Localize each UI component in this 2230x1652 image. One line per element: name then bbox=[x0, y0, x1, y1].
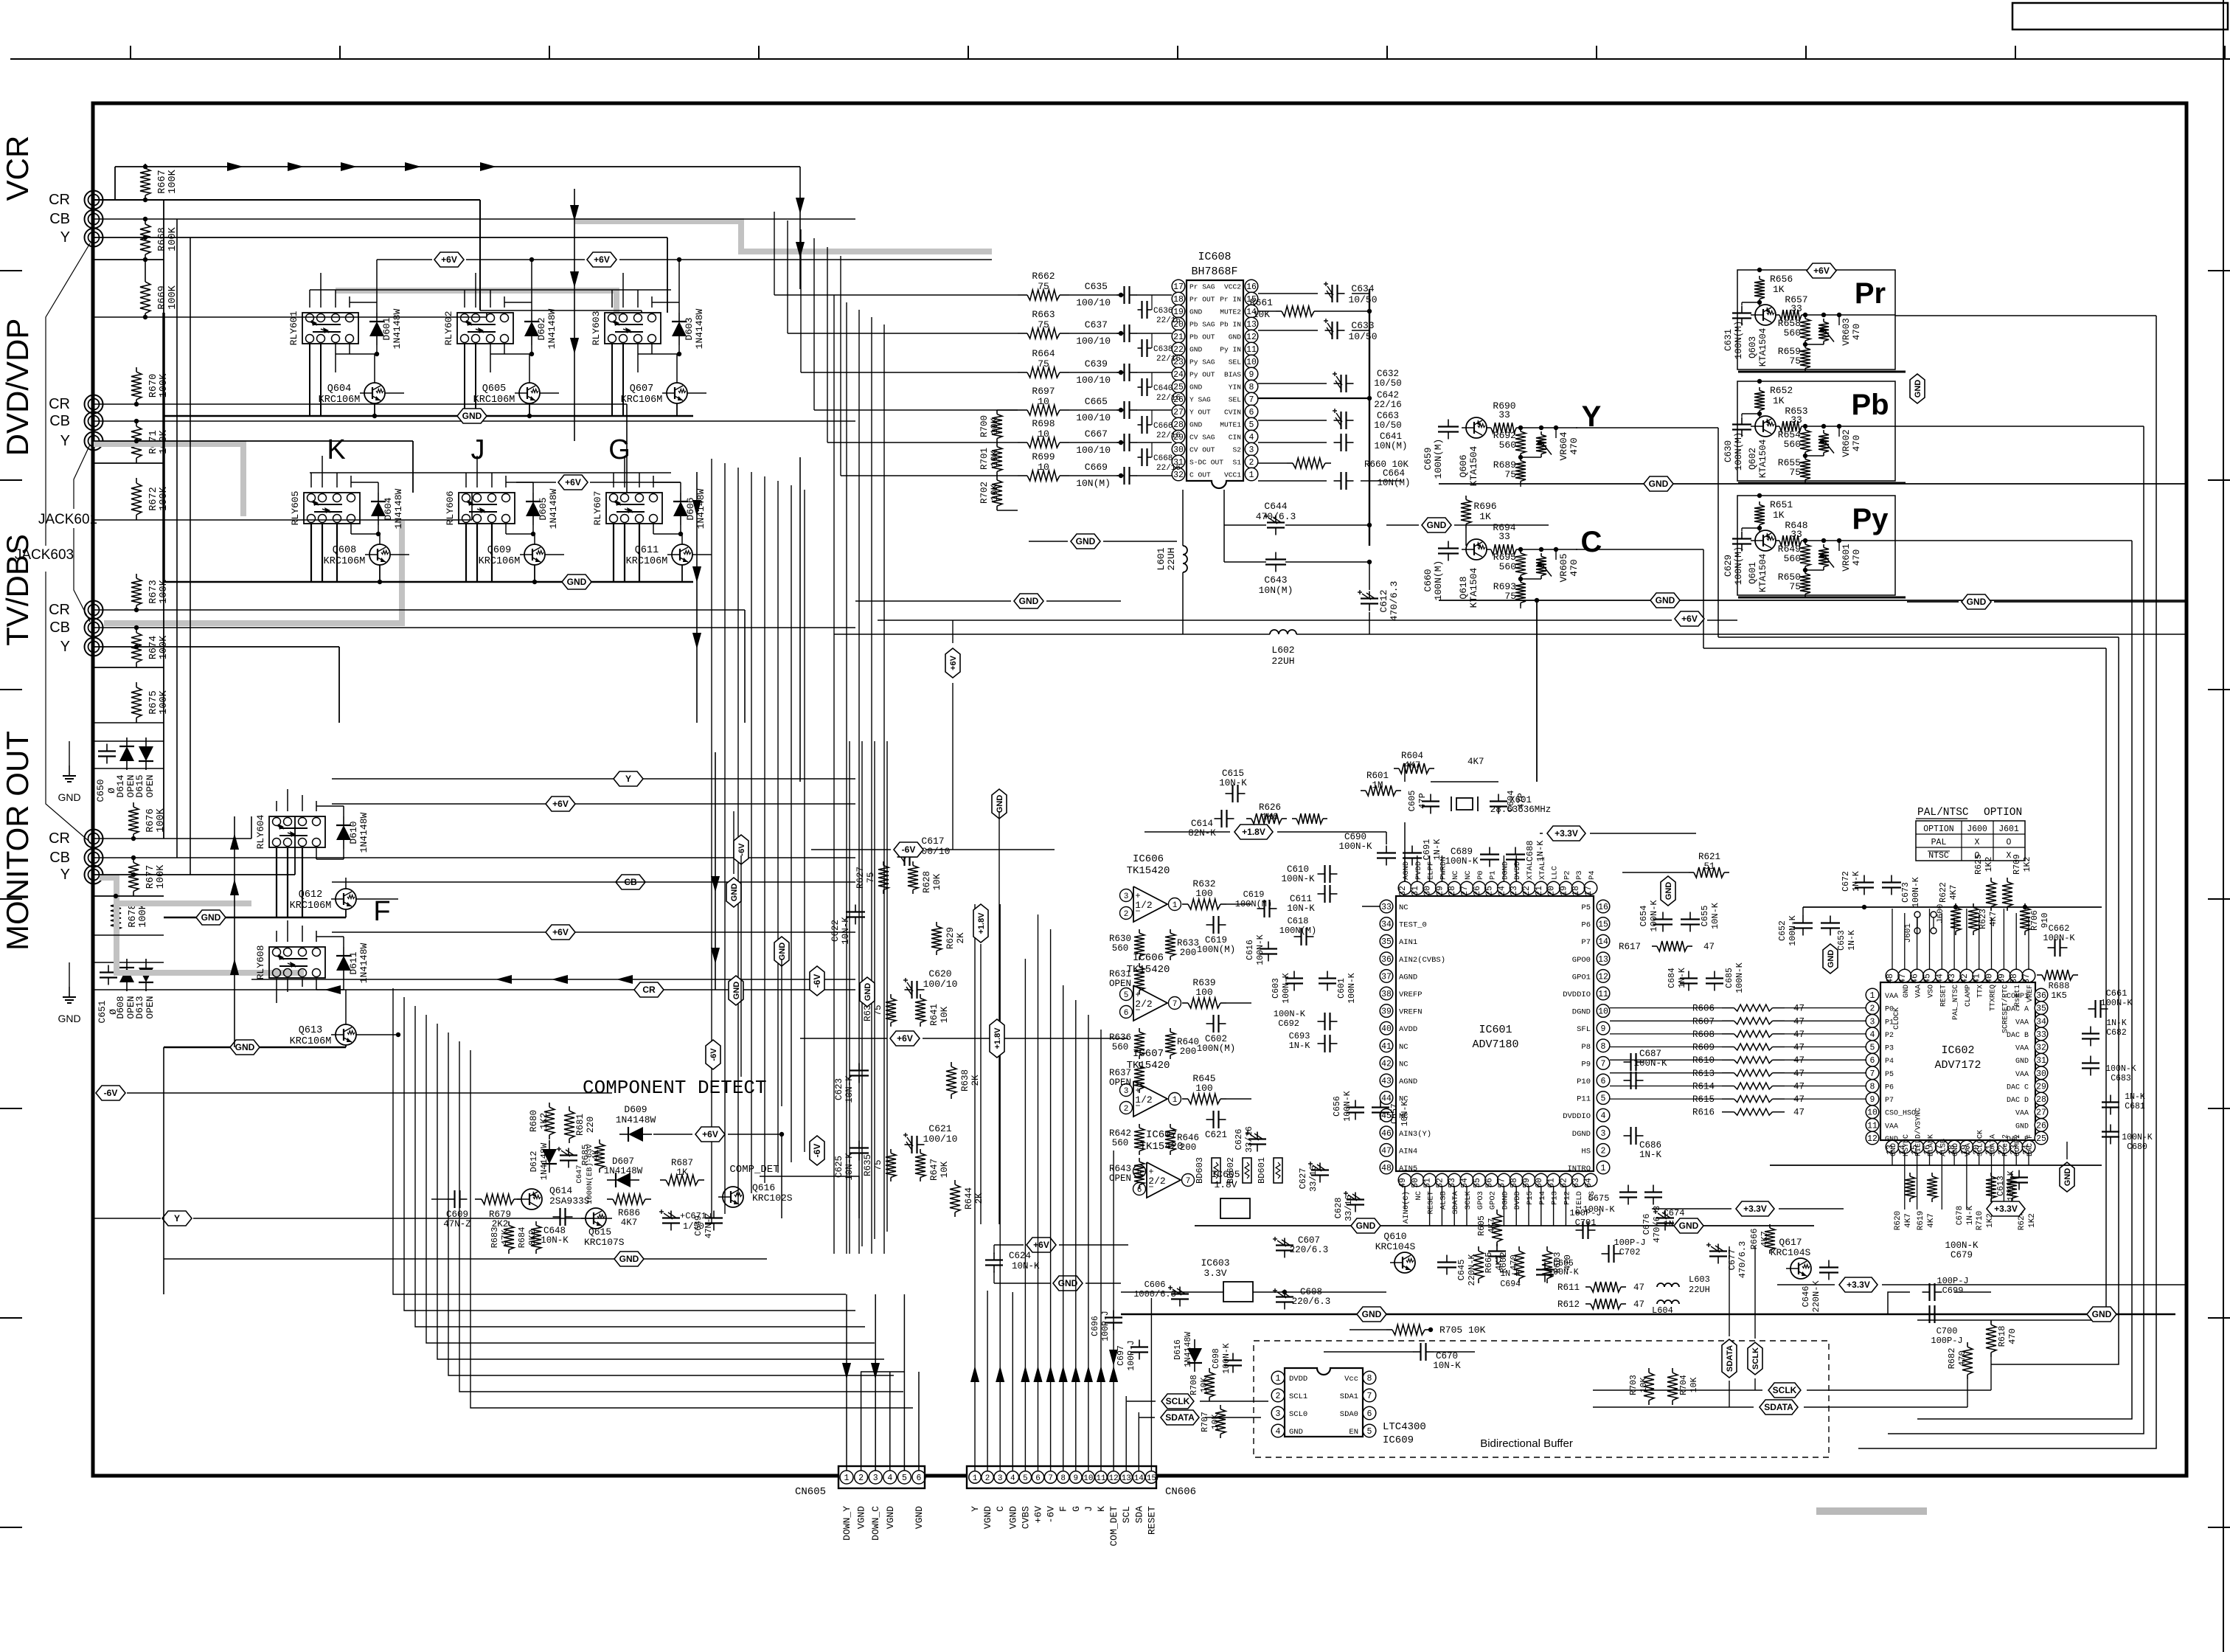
svg-text:35: 35 bbox=[1381, 937, 1392, 947]
svg-text:EN: EN bbox=[1349, 1428, 1358, 1437]
svg-text:SDATA: SDATA bbox=[1165, 1412, 1195, 1423]
svg-text:R680: R680 bbox=[529, 1110, 539, 1132]
svg-text:AIN5: AIN5 bbox=[1399, 1165, 1417, 1173]
svg-text:ALSB: ALSB bbox=[1939, 1139, 1948, 1156]
svg-text:+6V: +6V bbox=[594, 254, 610, 265]
svg-text:25: 25 bbox=[2036, 1134, 2046, 1144]
wire gray highlight B bbox=[336, 291, 616, 316]
svg-text:5: 5 bbox=[1367, 1427, 1372, 1437]
svg-text:VR604: VR604 bbox=[1558, 431, 1569, 460]
svg-text:C617: C617 bbox=[921, 836, 944, 847]
diode D613 bbox=[139, 968, 153, 982]
svg-text:Q615: Q615 bbox=[588, 1226, 611, 1238]
svg-text:RLY606: RLY606 bbox=[445, 491, 456, 526]
svg-text:64: 64 bbox=[1584, 1178, 1594, 1188]
svg-text:42: 42 bbox=[1960, 974, 1970, 984]
power flag GND y bbox=[1644, 476, 1673, 491]
wire R700 bus bbox=[997, 409, 1018, 411]
svg-text:F: F bbox=[373, 896, 390, 927]
svg-text:29: 29 bbox=[1435, 886, 1445, 896]
svg-text:100N(M): 100N(M) bbox=[1279, 926, 1316, 936]
capacitor C608 bbox=[1284, 1290, 1285, 1297]
svg-text:RLY607: RLY607 bbox=[592, 491, 603, 526]
svg-text:8: 8 bbox=[1060, 1474, 1066, 1483]
ic IC602 left pins bbox=[1866, 988, 1879, 1002]
svg-text:12: 12 bbox=[1867, 1134, 1878, 1144]
svg-text:R651: R651 bbox=[1770, 499, 1793, 510]
capacitor C613 bbox=[2018, 1170, 2020, 1178]
svg-text:10K: 10K bbox=[990, 484, 1000, 501]
capacitor C688 bbox=[1515, 847, 1516, 855]
capacitor C682 bbox=[2090, 1027, 2091, 1034]
svg-text:+: + bbox=[1135, 990, 1140, 1000]
svg-text:TK15420: TK15420 bbox=[1127, 1060, 1170, 1072]
svg-text:1K6: 1K6 bbox=[1262, 812, 1279, 822]
svg-text:OPEN: OPEN bbox=[1109, 979, 1131, 989]
wire left bus thick bbox=[162, 313, 165, 583]
capacitor C663 bbox=[1334, 420, 1341, 421]
svg-text:CLAMP: CLAMP bbox=[1965, 985, 1973, 1007]
diode D602 bbox=[524, 322, 539, 336]
svg-text:GND: GND bbox=[2063, 1168, 2072, 1187]
svg-text:30: 30 bbox=[2036, 1069, 2046, 1079]
svg-text:-6V: -6V bbox=[1046, 1506, 1057, 1524]
resistor R629 bbox=[936, 922, 937, 926]
wire IC602 top stubs bbox=[1892, 909, 1893, 969]
svg-text:ELPF: ELPF bbox=[1427, 861, 1436, 880]
svg-text:1: 1 bbox=[973, 1474, 978, 1483]
svg-text:Q608: Q608 bbox=[333, 545, 356, 556]
svg-text:C683: C683 bbox=[2111, 1074, 2131, 1083]
svg-text:SCL: SCL bbox=[1121, 1506, 1132, 1523]
svg-text:CB: CB bbox=[49, 413, 70, 429]
jack TV/DBS CB bbox=[85, 619, 103, 637]
svg-text:DGND: DGND bbox=[1501, 861, 1510, 880]
svg-text:D606: D606 bbox=[685, 497, 696, 520]
svg-text:D614: D614 bbox=[115, 774, 126, 797]
resistor R685 bbox=[599, 1139, 600, 1144]
svg-text:4: 4 bbox=[1010, 1474, 1015, 1483]
power flag +1.8V ic601 bbox=[1234, 825, 1273, 839]
wire MON CB bbox=[94, 857, 855, 858]
capacitor C638 bbox=[1138, 347, 1142, 349]
svg-text:1N4148W: 1N4148W bbox=[604, 1166, 643, 1176]
svg-text:R616: R616 bbox=[1692, 1108, 1715, 1118]
capacitor C603 bbox=[1293, 971, 1295, 979]
resistor R618 bbox=[1990, 1320, 1992, 1325]
svg-text:6: 6 bbox=[1124, 1009, 1129, 1018]
svg-text:C696: C696 bbox=[1091, 1316, 1100, 1336]
svg-text:IC601: IC601 bbox=[1479, 1024, 1512, 1036]
svg-text:10K: 10K bbox=[1253, 309, 1271, 320]
svg-text:100N-K: 100N-K bbox=[1222, 1343, 1232, 1374]
power flag SDATA col bbox=[1722, 1339, 1737, 1378]
svg-text:J: J bbox=[471, 434, 485, 465]
power flag SCLK col bbox=[1748, 1342, 1762, 1375]
svg-text:RESET: RESET bbox=[1939, 985, 1948, 1007]
capacitor C611 bbox=[1318, 893, 1325, 895]
svg-text:GND: GND bbox=[58, 791, 80, 803]
capacitor C677 bbox=[1717, 1244, 1719, 1252]
capacitor C633 bbox=[1325, 330, 1333, 331]
svg-text:54: 54 bbox=[1460, 1178, 1470, 1188]
svg-text:31: 31 bbox=[2036, 1056, 2046, 1066]
wire row2 gnd rail bbox=[164, 581, 693, 583]
resistor R706 bbox=[2024, 903, 2026, 907]
wire MON Y bbox=[94, 874, 295, 875]
svg-text:CR: CR bbox=[49, 192, 70, 208]
svg-text:31: 31 bbox=[1411, 886, 1420, 896]
svg-text:G: G bbox=[1071, 1506, 1082, 1512]
wire +6V long rail bbox=[799, 457, 801, 782]
capacitor C624 bbox=[993, 1253, 995, 1260]
wire gray highlight E bbox=[94, 444, 243, 516]
svg-text:10N-K: 10N-K bbox=[1710, 902, 1720, 929]
svg-text:R681: R681 bbox=[575, 1114, 586, 1136]
capacitor C687 bbox=[1624, 1061, 1631, 1063]
svg-text:C691: C691 bbox=[1422, 839, 1432, 861]
svg-text:1N4148W: 1N4148W bbox=[393, 488, 404, 529]
svg-text:3: 3 bbox=[1601, 1129, 1606, 1139]
svg-text:C602: C602 bbox=[1205, 1034, 1227, 1044]
resistor R604b bbox=[1394, 768, 1399, 769]
svg-text:1N-K: 1N-K bbox=[1289, 1041, 1311, 1051]
svg-text:59: 59 bbox=[1522, 1178, 1532, 1188]
svg-text:CLOCK: CLOCK bbox=[1893, 1007, 1901, 1030]
svg-text:Y SAG: Y SAG bbox=[1189, 396, 1211, 404]
svg-text:C692: C692 bbox=[1278, 1018, 1299, 1029]
relay RLY608 bbox=[269, 947, 325, 978]
resistor R697 bbox=[1018, 409, 1027, 411]
wire relay feed bus row1 bbox=[310, 289, 671, 291]
svg-text:S1: S1 bbox=[1232, 459, 1241, 467]
svg-text:22: 22 bbox=[1522, 886, 1532, 896]
wire center bundle mid bbox=[833, 295, 835, 1254]
capacitor C651 bbox=[108, 965, 109, 973]
svg-text:100P-J: 100P-J bbox=[1127, 1340, 1136, 1370]
svg-text:220: 220 bbox=[586, 1117, 596, 1134]
diode D615 bbox=[139, 746, 153, 761]
sheet border bbox=[93, 103, 2186, 1476]
resistor R668 bbox=[145, 219, 146, 224]
capacitor C627 bbox=[1319, 1163, 1321, 1170]
svg-text:1K2: 1K2 bbox=[2028, 1213, 2037, 1228]
wire Pb out bbox=[1895, 426, 2144, 427]
svg-text:47: 47 bbox=[1898, 974, 1908, 984]
svg-text:100N-K: 100N-K bbox=[1281, 874, 1315, 884]
svg-text:6: 6 bbox=[1035, 1474, 1041, 1483]
svg-text:RLY604: RLY604 bbox=[255, 814, 266, 849]
svg-text:10: 10 bbox=[1038, 462, 1049, 473]
capacitor C657 bbox=[1380, 1100, 1381, 1108]
svg-text:56: 56 bbox=[1485, 1178, 1495, 1188]
svg-text:1N-K: 1N-K bbox=[1966, 1205, 1975, 1225]
svg-text:Pb OUT: Pb OUT bbox=[1189, 333, 1215, 341]
svg-text:D609: D609 bbox=[624, 1104, 647, 1115]
svg-text:DVD/VDP: DVD/VDP bbox=[0, 319, 35, 457]
svg-text:Pb SAG: Pb SAG bbox=[1189, 321, 1215, 329]
svg-text:220/6.3: 220/6.3 bbox=[1290, 1245, 1329, 1255]
svg-text:R674: R674 bbox=[148, 636, 159, 659]
resistor R645 bbox=[1182, 1098, 1188, 1100]
svg-text:SCL0: SCL0 bbox=[1289, 1410, 1307, 1419]
resistor R639 bbox=[1182, 1002, 1188, 1004]
svg-text:1N4148W: 1N4148W bbox=[358, 812, 369, 853]
capacitor C619b bbox=[1257, 908, 1265, 909]
bead BD603 bbox=[1212, 1158, 1220, 1183]
svg-text:100N(M): 100N(M) bbox=[1734, 546, 1744, 586]
svg-text:GND: GND bbox=[1664, 882, 1673, 900]
power flag SCLK right bbox=[1768, 1383, 1801, 1398]
wire RLY604 pins bbox=[276, 801, 277, 811]
wire DVD CB bbox=[94, 420, 855, 422]
power flag +3.3V ic601 bbox=[1547, 826, 1585, 841]
svg-text:R696: R696 bbox=[1473, 501, 1496, 512]
svg-text:6: 6 bbox=[1601, 1077, 1606, 1086]
svg-text:13: 13 bbox=[1246, 320, 1257, 330]
wire left margin ticks bbox=[0, 270, 22, 271]
title block bbox=[2012, 3, 2228, 29]
wire xtal bus bbox=[1404, 763, 1406, 782]
svg-text:100N(M): 100N(M) bbox=[1734, 321, 1744, 360]
svg-text:R620: R620 bbox=[1894, 1211, 1903, 1230]
svg-text:D601: D601 bbox=[381, 317, 392, 340]
svg-text:KTA1504: KTA1504 bbox=[1468, 445, 1479, 486]
svg-text:1K: 1K bbox=[1773, 284, 1785, 295]
svg-text:J: J bbox=[1083, 1506, 1094, 1512]
ic IC608 pins bbox=[1172, 280, 1185, 293]
svg-text:Y: Y bbox=[60, 867, 70, 883]
wire Y out bbox=[1576, 427, 1718, 428]
svg-text:IC605: IC605 bbox=[1211, 1169, 1240, 1180]
svg-text:C701: C701 bbox=[1575, 1218, 1597, 1228]
svg-text:L601: L601 bbox=[1156, 547, 1167, 570]
svg-text:1: 1 bbox=[1173, 1096, 1178, 1105]
op-amp IC606 1/2 bbox=[1133, 886, 1167, 922]
svg-text:C698: C698 bbox=[1212, 1348, 1221, 1369]
resistor R670 bbox=[136, 367, 137, 372]
svg-text:C620: C620 bbox=[928, 968, 951, 979]
svg-text:+: + bbox=[1135, 891, 1140, 901]
wire Pr out bbox=[1895, 315, 2156, 316]
svg-text:1K: 1K bbox=[676, 1167, 688, 1178]
capacitor C675 bbox=[1628, 1185, 1629, 1193]
wire mid right verticals bbox=[1717, 636, 1719, 638]
svg-text:SFL: SFL bbox=[1577, 1025, 1591, 1034]
svg-text:R662: R662 bbox=[1032, 271, 1055, 282]
svg-text:CV OUT: CV OUT bbox=[1189, 446, 1215, 454]
svg-text:P4: P4 bbox=[1588, 870, 1597, 880]
resistor R705 bbox=[1386, 1329, 1392, 1330]
op-amp IC607 2/2 bbox=[1147, 1162, 1181, 1198]
svg-text:C603: C603 bbox=[1271, 978, 1281, 999]
svg-text:16: 16 bbox=[1598, 903, 1608, 912]
power flag CR mid bbox=[634, 982, 664, 997]
wire MON CR bbox=[94, 838, 251, 839]
svg-text:R622: R622 bbox=[1939, 882, 1948, 903]
relay RLY606 bbox=[459, 493, 515, 524]
svg-text:14: 14 bbox=[1134, 1474, 1144, 1483]
power flag GND ic602 bbox=[1823, 944, 1838, 974]
svg-text:R626: R626 bbox=[1259, 802, 1281, 813]
svg-text:100N-K: 100N-K bbox=[1649, 900, 1659, 932]
svg-text:GND: GND bbox=[1656, 595, 1675, 605]
svg-text:33: 33 bbox=[1498, 409, 1510, 420]
wire RLY605 pins bbox=[310, 473, 312, 487]
power flag +6V compdet bbox=[695, 1127, 725, 1142]
capacitor C686 bbox=[1624, 1135, 1631, 1136]
power flag GND mid2 bbox=[774, 937, 789, 966]
svg-text:O: O bbox=[1975, 851, 1980, 861]
svg-text:62: 62 bbox=[1559, 1178, 1569, 1188]
svg-text:100P-J: 100P-J bbox=[1614, 1238, 1645, 1248]
wire left bus 3 bbox=[190, 237, 191, 875]
svg-text:100N-K: 100N-K bbox=[1735, 962, 1745, 993]
capacitor C612 bbox=[1369, 591, 1370, 599]
svg-text:C621: C621 bbox=[928, 1123, 951, 1134]
ic IC601 body bbox=[1396, 896, 1594, 1171]
svg-text:X: X bbox=[1975, 838, 1980, 847]
svg-text:1N4148W: 1N4148W bbox=[548, 488, 559, 529]
svg-text:-6V: -6V bbox=[709, 1048, 718, 1061]
svg-text:RLY608: RLY608 bbox=[255, 945, 266, 980]
svg-text:D607: D607 bbox=[612, 1156, 634, 1167]
svg-text:33: 33 bbox=[1790, 414, 1802, 426]
svg-text:C672: C672 bbox=[1841, 871, 1851, 892]
svg-text:Q602: Q602 bbox=[1748, 448, 1758, 470]
svg-text:51: 51 bbox=[1703, 861, 1715, 872]
svg-text:D611: D611 bbox=[348, 951, 359, 974]
svg-text:GND: GND bbox=[1967, 597, 1987, 607]
capacitor C605 bbox=[1430, 794, 1431, 802]
svg-text:47: 47 bbox=[1633, 1283, 1644, 1293]
svg-text:C648: C648 bbox=[543, 1226, 566, 1236]
svg-text:2: 2 bbox=[858, 1474, 864, 1483]
resistor R662 bbox=[1018, 294, 1027, 296]
svg-text:C694: C694 bbox=[1500, 1280, 1521, 1289]
svg-text:GND: GND bbox=[619, 1254, 639, 1264]
svg-text:NC: NC bbox=[1399, 1060, 1408, 1069]
svg-text:PAL/NTSC: PAL/NTSC bbox=[1917, 807, 1969, 819]
svg-text:15: 15 bbox=[1147, 1474, 1156, 1483]
svg-text:51: 51 bbox=[1423, 1178, 1433, 1188]
capacitor C672 bbox=[1863, 875, 1865, 883]
svg-text:470: 470 bbox=[1569, 559, 1580, 576]
svg-text:K: K bbox=[1096, 1506, 1107, 1512]
svg-text:11: 11 bbox=[1246, 345, 1257, 355]
wire top margin rule bbox=[10, 58, 2230, 60]
svg-text:Py OUT: Py OUT bbox=[1189, 371, 1215, 379]
svg-text:C675: C675 bbox=[1588, 1193, 1610, 1204]
resistor R643 bbox=[1139, 1158, 1140, 1162]
svg-text:8: 8 bbox=[1601, 1042, 1606, 1052]
svg-text:R708: R708 bbox=[1189, 1375, 1199, 1395]
svg-text:6: 6 bbox=[1249, 408, 1254, 417]
svg-text:82N-K: 82N-K bbox=[1188, 828, 1216, 839]
capacitor C680 bbox=[2110, 1125, 2111, 1132]
svg-text:CN605: CN605 bbox=[795, 1486, 826, 1498]
svg-text:C687: C687 bbox=[1639, 1049, 1661, 1059]
svg-text:21: 21 bbox=[1535, 886, 1544, 896]
svg-text:100: 100 bbox=[1195, 888, 1212, 899]
wire gray highlight D bbox=[100, 878, 304, 973]
svg-text:C615: C615 bbox=[1222, 768, 1244, 779]
svg-text:57: 57 bbox=[1497, 1178, 1507, 1188]
svg-text:37: 37 bbox=[1381, 972, 1392, 982]
svg-text:C624: C624 bbox=[1009, 1251, 1031, 1261]
svg-text:75: 75 bbox=[873, 1159, 883, 1170]
wire gray highlight C bbox=[104, 521, 402, 623]
wire IC601 corner leads bbox=[1386, 888, 1387, 894]
svg-text:CR: CR bbox=[49, 396, 70, 412]
svg-text:GND: GND bbox=[1189, 346, 1203, 354]
svg-text:34: 34 bbox=[1381, 920, 1392, 930]
wire right drop 2 bbox=[1888, 426, 2144, 1434]
svg-text:12: 12 bbox=[1108, 1474, 1118, 1483]
svg-text:RLY605: RLY605 bbox=[290, 491, 301, 526]
svg-text:2: 2 bbox=[1276, 1392, 1281, 1401]
svg-text:VAA: VAA bbox=[1885, 1122, 1898, 1131]
svg-text:R613: R613 bbox=[1692, 1069, 1715, 1079]
svg-text:100N-K: 100N-K bbox=[1548, 1268, 1579, 1277]
power flag Y mid bbox=[162, 1211, 192, 1226]
capacitor C696 bbox=[1113, 1311, 1114, 1318]
svg-text:R707: R707 bbox=[1201, 1412, 1210, 1432]
svg-text:100N-K: 100N-K bbox=[2105, 1064, 2136, 1074]
svg-text:P7: P7 bbox=[1581, 938, 1591, 947]
power flag +3.3V bot3 bbox=[1987, 1201, 2025, 1216]
capacitor C692 bbox=[1318, 1021, 1325, 1022]
svg-text:3: 3 bbox=[1870, 1017, 1875, 1027]
svg-text:SCL1: SCL1 bbox=[1289, 1392, 1307, 1401]
svg-text:GND: GND bbox=[1356, 1221, 1376, 1231]
svg-text:ALSB: ALSB bbox=[1439, 1191, 1448, 1209]
svg-text:100N-K: 100N-K bbox=[1445, 856, 1479, 867]
power flag GND ic601r bbox=[1661, 876, 1675, 906]
inductor L602 bbox=[1270, 630, 1279, 634]
wire right feed 879 bbox=[1703, 648, 2106, 649]
power flag -6V mid2 bbox=[734, 835, 748, 864]
svg-text:47: 47 bbox=[1633, 1299, 1644, 1310]
wire comp_det box bbox=[760, 1176, 859, 1218]
svg-text:P2: P2 bbox=[1885, 1032, 1894, 1040]
capacitor C601 bbox=[1327, 971, 1328, 979]
svg-text:52: 52 bbox=[1435, 1178, 1445, 1188]
capacitor C641 bbox=[1334, 442, 1341, 443]
svg-text:C625: C625 bbox=[834, 1156, 844, 1178]
svg-text:R664: R664 bbox=[1032, 348, 1055, 359]
svg-text:GND: GND bbox=[1903, 985, 1911, 998]
svg-text:Vcc: Vcc bbox=[1344, 1375, 1358, 1384]
capacitor C623 bbox=[858, 1063, 860, 1071]
svg-text:C643: C643 bbox=[1264, 575, 1287, 586]
svg-text:R630: R630 bbox=[1109, 934, 1131, 944]
jack VCR CB bbox=[85, 210, 103, 229]
svg-text:C677: C677 bbox=[1727, 1249, 1737, 1271]
svg-text:R610: R610 bbox=[1692, 1055, 1715, 1066]
wire ic602 top bus bbox=[1803, 906, 2102, 908]
wire C643 bbox=[1223, 525, 1225, 562]
svg-text:10N-K: 10N-K bbox=[1287, 903, 1315, 914]
svg-text:10N-K: 10N-K bbox=[541, 1235, 569, 1246]
crystal X601 bbox=[1456, 798, 1473, 810]
svg-text:100N(M): 100N(M) bbox=[1197, 1044, 1236, 1054]
capacitor C615 bbox=[1226, 793, 1233, 794]
svg-text:470/6.3: 470/6.3 bbox=[1652, 1206, 1662, 1243]
svg-text:22/16: 22/16 bbox=[1156, 464, 1181, 473]
svg-text:10: 10 bbox=[1867, 1108, 1878, 1118]
svg-text:GND: GND bbox=[1952, 1143, 1960, 1156]
